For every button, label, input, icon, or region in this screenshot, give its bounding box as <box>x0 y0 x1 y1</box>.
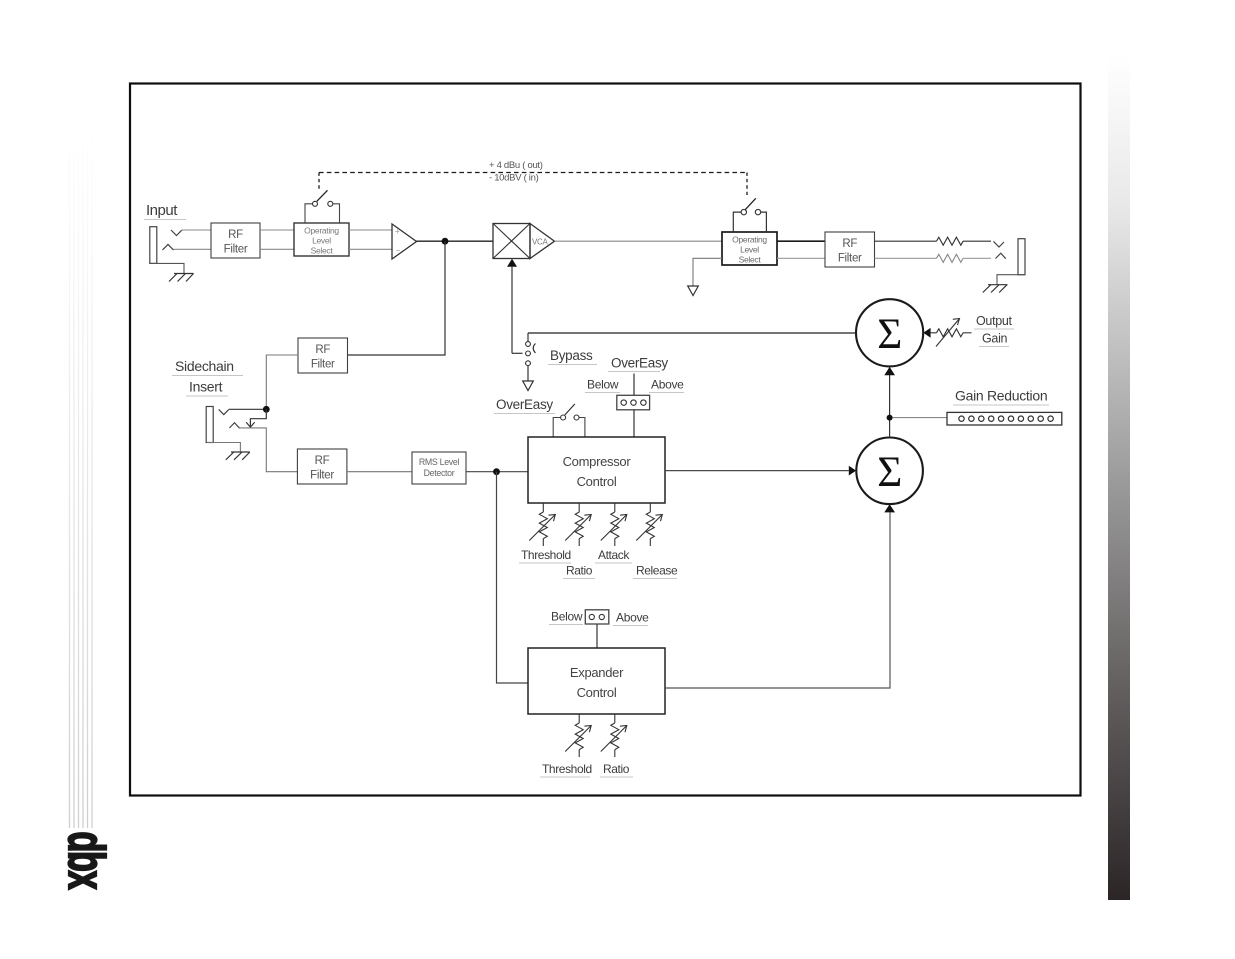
dbx logo (rotated) <box>57 832 113 890</box>
block RF Filter (input) <box>211 223 260 258</box>
svg-text:Release: Release <box>636 564 678 578</box>
svg-text:dbx: dbx <box>57 832 113 890</box>
svg-text:- 10dBV ( in): - 10dBV ( in) <box>489 173 539 184</box>
svg-text:Below: Below <box>587 378 619 392</box>
label Ratio <box>603 762 630 776</box>
pot expander ratio <box>601 714 627 757</box>
svg-text:Expander: Expander <box>570 665 624 680</box>
block Operating Level Select (input) <box>294 223 349 256</box>
VCA control arrow <box>507 259 523 354</box>
label Threshold <box>542 762 592 776</box>
label Sidechain <box>172 358 243 376</box>
svg-text:RF: RF <box>842 238 857 250</box>
wire level select to RF filter (cold) <box>777 257 825 259</box>
op-amp A1 input amplifier <box>392 224 417 259</box>
node gain reduction tap <box>887 415 893 421</box>
wire level select to amp (cold) <box>349 248 392 250</box>
label +4dBu (out) <box>489 160 543 171</box>
svg-text:RMS Level: RMS Level <box>419 457 460 467</box>
arrow expander into summing amp 2 <box>884 504 895 512</box>
label Ratio <box>566 564 593 578</box>
svg-text:Sidechain: Sidechain <box>175 358 234 374</box>
arrow into summing amp 2 <box>849 466 856 476</box>
gain reduction LED meter <box>947 412 1062 425</box>
pot compressor ratio <box>565 503 591 546</box>
summing amp U2 (sigma lower) <box>856 438 923 505</box>
wire compressor control to summing amp 2 <box>665 470 849 472</box>
label Attack <box>598 548 630 562</box>
wire node to sidechain RF filter <box>348 241 446 355</box>
svg-text:Gain: Gain <box>982 332 1008 346</box>
normalling arrow <box>246 409 266 427</box>
wire RF filter to level select (hot) <box>260 229 294 231</box>
svg-text:Select: Select <box>311 246 334 256</box>
block RF Filter (sidechain return) <box>297 449 347 484</box>
svg-text:Detector: Detector <box>424 468 455 478</box>
svg-text:Σ: Σ <box>877 449 902 496</box>
svg-text:Gain Reduction: Gain Reduction <box>955 388 1047 404</box>
input jack J1 <box>150 227 182 264</box>
svg-text:OverEasy: OverEasy <box>496 397 553 412</box>
label Release <box>636 564 678 578</box>
pot output gain <box>931 319 972 347</box>
svg-text:Input: Input <box>146 202 178 219</box>
svg-text:Above: Above <box>616 611 649 625</box>
label OverEasy (switch) <box>494 397 555 414</box>
pot expander threshold <box>565 714 591 757</box>
block Compressor Control <box>528 437 665 503</box>
ground (sidechain jack) <box>207 443 250 460</box>
ground (input jack) <box>151 263 194 281</box>
block Operating Level Select (output) <box>722 232 777 265</box>
svg-text:Operating: Operating <box>732 235 767 245</box>
VCA U1 multiplier <box>493 224 555 259</box>
block Expander Control <box>528 648 665 714</box>
wire overeasy label to LED box <box>633 374 635 396</box>
arrow output gain into summing amp 1 <box>923 328 930 338</box>
wire RF filter to RMS detector <box>347 471 412 473</box>
page spine shading stripes <box>70 122 93 828</box>
wire LED box to compressor control <box>633 410 635 437</box>
output jack J3 <box>994 239 1026 275</box>
label OverEasy (indicator) <box>608 356 668 372</box>
wire jack to RF filter (hot) <box>182 229 211 231</box>
LED indicator box (compressor) <box>617 395 650 410</box>
node sidechain send junction <box>263 406 270 413</box>
label Input <box>144 202 186 220</box>
svg-text:Above: Above <box>651 378 684 392</box>
svg-text:Compressor: Compressor <box>563 454 632 469</box>
svg-text:Ratio: Ratio <box>603 762 630 776</box>
svg-text:Filter: Filter <box>310 470 334 482</box>
sidechain insert jack J2 <box>206 407 239 443</box>
wire tap to meter <box>893 417 947 419</box>
pot compressor release <box>636 503 662 546</box>
resistor R2 output cold <box>875 254 992 262</box>
label Bypass <box>548 348 597 365</box>
ground (output jack) <box>983 275 1025 293</box>
wire RF filter to level select (cold) <box>260 248 294 250</box>
wire RMS detector to compressor control <box>466 471 528 473</box>
pot compressor attack <box>601 503 627 546</box>
pot compressor threshold <box>529 503 555 546</box>
svg-text:Filter: Filter <box>838 253 862 265</box>
label Above (expander) <box>613 611 649 626</box>
svg-text:Level: Level <box>740 245 759 255</box>
wire detector to expander control <box>497 472 529 683</box>
label -10dBV (in) <box>489 173 539 184</box>
wire sidechain RF filter to insert jack <box>266 355 298 406</box>
label Gain <box>979 332 1009 347</box>
svg-text:−: − <box>396 246 401 255</box>
svg-text:Operating: Operating <box>304 226 339 236</box>
ground arrow (output level select) <box>688 258 722 295</box>
wire bypass to summing amp 1 <box>528 332 856 334</box>
svg-text:Filter: Filter <box>224 244 248 256</box>
svg-text:Filter: Filter <box>311 359 335 371</box>
svg-text:Threshold: Threshold <box>521 548 571 562</box>
svg-text:RF: RF <box>315 455 330 467</box>
label Output <box>974 314 1014 329</box>
svg-text:RF: RF <box>315 344 330 356</box>
svg-text:Output: Output <box>976 314 1013 328</box>
wire level select to RF filter (hot) <box>777 240 825 242</box>
label Threshold <box>521 548 571 562</box>
svg-text:Σ: Σ <box>877 311 902 358</box>
label Below (expander) <box>549 610 583 625</box>
label Below (compressor) <box>585 378 620 393</box>
svg-text:+: + <box>395 227 400 236</box>
label Insert <box>186 379 228 397</box>
summing amp U3 (sigma upper) <box>856 299 923 366</box>
right edge gradient bar <box>1108 55 1130 900</box>
svg-text:Control: Control <box>577 685 617 700</box>
block RMS Level Detector <box>412 452 466 484</box>
node main signal junction <box>442 238 449 245</box>
svg-text:Below: Below <box>551 610 583 624</box>
wire send contact to node <box>229 408 267 410</box>
svg-text:OverEasy: OverEasy <box>611 356 668 371</box>
dashed wire: operating level link <box>319 173 747 196</box>
svg-text:Level: Level <box>312 236 331 246</box>
wire LED box to expander control <box>596 624 598 648</box>
LED indicator box (expander) <box>585 610 609 624</box>
svg-text:Select: Select <box>739 255 762 265</box>
svg-text:Threshold: Threshold <box>542 762 592 776</box>
resistor R1 output hot <box>875 237 992 245</box>
diagram frame border <box>130 84 1081 796</box>
wire jack to RF filter (cold) <box>174 248 212 250</box>
svg-text:Insert: Insert <box>189 379 223 395</box>
label Gain Reduction <box>953 388 1049 406</box>
node detector output junction <box>493 468 500 475</box>
svg-text:Attack: Attack <box>598 548 630 562</box>
switch S1 operating level (input) <box>305 190 340 223</box>
svg-text:+ 4 dBu ( out): + 4 dBu ( out) <box>489 160 543 171</box>
svg-text:VCA: VCA <box>532 238 549 247</box>
wire expander control to summing amp 2 <box>665 513 890 689</box>
label Above (compressor) <box>649 378 684 393</box>
arrow into summing amp 1 <box>884 367 895 375</box>
block RF Filter (output) <box>825 232 875 267</box>
switch S2 operating level (output) <box>733 198 766 232</box>
wire summing amp 2 to summing amp 1 <box>889 375 891 438</box>
wire amp to VCA <box>417 240 494 242</box>
wire level select to amp (hot) <box>349 229 392 231</box>
block RF Filter (sidechain send) <box>298 338 348 373</box>
switch S3 bypass <box>523 333 536 391</box>
svg-text:Control: Control <box>577 474 617 489</box>
wire VCA to output level select <box>555 240 723 242</box>
svg-text:Ratio: Ratio <box>566 564 593 578</box>
svg-text:Bypass: Bypass <box>550 348 593 363</box>
wire return contact to RF filter <box>240 428 298 472</box>
svg-text:RF: RF <box>228 229 243 241</box>
switch S4 overeasy <box>553 404 585 437</box>
